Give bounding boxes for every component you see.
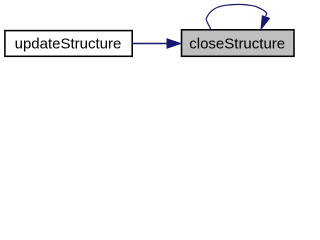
- node closeStructure (current, highlighted): [182, 30, 295, 57]
- self-loop edge closeStructure -> closeStructure: [206, 4, 269, 29]
- edge updateStructure -> closeStructure: [132, 39, 181, 48]
- svg-text:closeStructure: closeStructure: [189, 35, 285, 52]
- node updateStructure: [5, 31, 132, 57]
- svg-text:updateStructure: updateStructure: [15, 35, 122, 52]
